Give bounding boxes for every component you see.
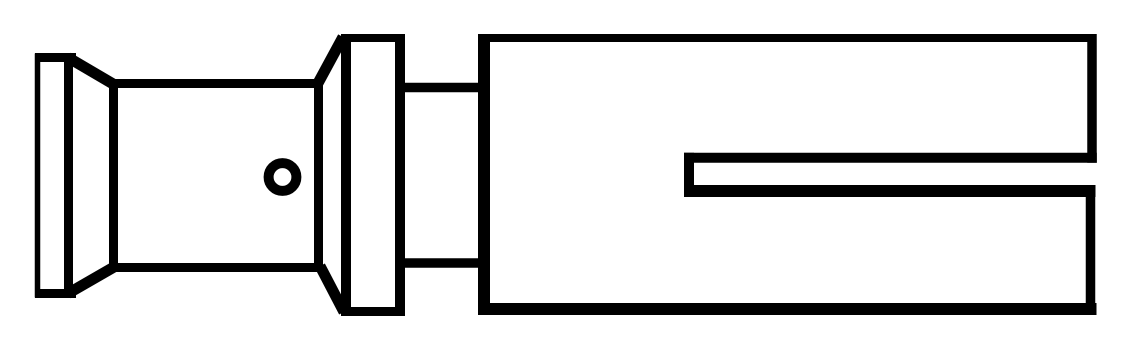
slot left end cap (684, 153, 694, 197)
front flare ring left edge (35, 54, 41, 298)
barrel left edge (109, 80, 118, 272)
neck top edge (405, 83, 484, 93)
neck bottom edge (405, 258, 484, 268)
cone taper bottom line (68, 267, 114, 294)
cone taper top line (68, 58, 114, 85)
barrel bottom edge (109, 263, 323, 272)
flange bottom edge (341, 307, 405, 316)
front flare ring top edge (35, 53, 76, 62)
flange taper bottom line (320, 266, 344, 312)
barrel top edge (109, 79, 323, 88)
crimp body top edge (478, 34, 1097, 42)
crimp body right edge lower segment (1086, 186, 1096, 315)
barrel right edge (314, 80, 323, 272)
flange right edge (395, 34, 405, 316)
slot top edge (684, 153, 1097, 163)
flange top edge (341, 34, 405, 42)
crimp body left edge (478, 34, 490, 315)
flange left edge (341, 34, 351, 316)
crimp body right edge upper segment (1087, 34, 1097, 163)
inspection hole (269, 163, 297, 191)
slot bottom edge (684, 185, 1096, 197)
flange taper top line (317, 37, 343, 85)
front flare ring bottom edge (35, 289, 76, 298)
crimp body bottom edge (478, 303, 1097, 315)
front flare ring right edge (64, 54, 73, 297)
